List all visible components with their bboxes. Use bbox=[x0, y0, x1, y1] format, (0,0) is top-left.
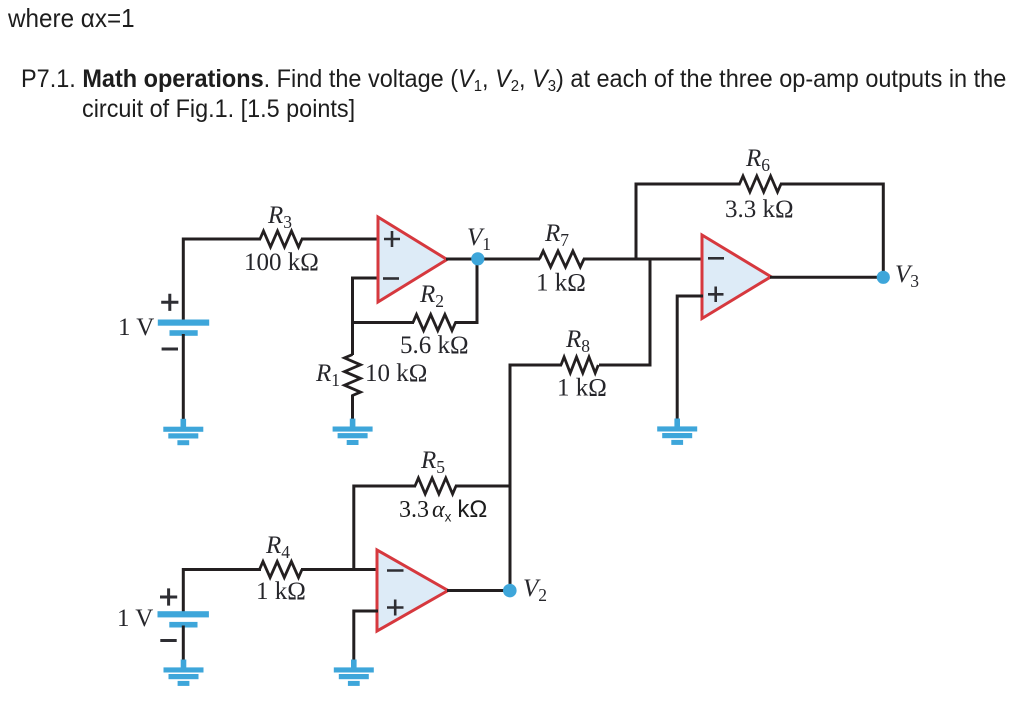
svg-text:1 V: 1 V bbox=[117, 605, 153, 632]
op-amp U1 minus input marker bbox=[383, 277, 399, 280]
ground G2 bbox=[181, 660, 187, 669]
svg-text:1 kΩ: 1 kΩ bbox=[256, 578, 306, 605]
wire: U2 non-inverting input down to ground G5 bbox=[354, 610, 378, 661]
battery B1 plus sign bbox=[161, 294, 178, 311]
svg-text:R7: R7 bbox=[544, 220, 569, 250]
battery B1 minus sign bbox=[162, 348, 178, 351]
ground G1 bbox=[181, 419, 187, 428]
problem text line 1 bbox=[21, 65, 1006, 94]
wire: op-amp U1 inverting input to node, with corner bbox=[353, 278, 380, 323]
wire: R3 to op-amp U1 + input bbox=[301, 238, 379, 241]
ground G5 bbox=[351, 660, 357, 669]
node V3 bbox=[877, 271, 890, 284]
svg-text:V1: V1 bbox=[467, 224, 491, 254]
op-amp U3 bbox=[702, 235, 771, 319]
svg-text:1 kΩ: 1 kΩ bbox=[536, 270, 586, 297]
resistor R2 bbox=[413, 315, 456, 331]
wire: battery B2 to ground G2 bbox=[182, 626, 185, 661]
resistor R4 bbox=[260, 562, 303, 578]
wire: battery B2 to R4 bbox=[182, 568, 261, 612]
wire: R8 to left rail down to node V2 bbox=[510, 364, 562, 591]
resistor R1 (vertical) bbox=[351, 321, 354, 355]
resistor R8 bbox=[599, 364, 652, 367]
op-amp U1 plus input marker bbox=[384, 231, 400, 247]
battery B2 minus sign bbox=[160, 639, 176, 642]
op-amp U2 plus input marker bbox=[387, 600, 404, 616]
op-amp U2 minus input marker bbox=[387, 569, 404, 572]
heading: where ax=1 bbox=[8, 3, 135, 34]
battery B1 (1 V source) bbox=[158, 320, 209, 326]
svg-text:100 kΩ: 100 kΩ bbox=[244, 249, 319, 276]
node V2 bbox=[503, 584, 517, 598]
wire: U1 output to node V1 and to R7 bbox=[446, 258, 540, 261]
wire: battery B1 to ground G1 bbox=[182, 334, 185, 420]
ground G4 bbox=[674, 419, 680, 428]
svg-text:V2: V2 bbox=[523, 575, 547, 605]
svg-text:R2: R2 bbox=[419, 281, 444, 311]
op-amp U2 bbox=[377, 550, 448, 631]
wire: feedback node to R2 bbox=[351, 321, 414, 324]
svg-text:1 kΩ: 1 kΩ bbox=[557, 375, 607, 402]
wire: U3 non-inverting input down to ground G4 bbox=[677, 295, 703, 420]
svg-text:R1: R1 bbox=[315, 360, 340, 390]
wire: R7 to op-amp U3 inverting input bbox=[583, 258, 703, 261]
wire: battery B1 to R3 (top-left corner) bbox=[182, 239, 261, 321]
svg-text:1 V: 1 V bbox=[118, 314, 154, 341]
svg-text:R6: R6 bbox=[745, 145, 770, 175]
problem text line 2 bbox=[82, 95, 355, 124]
battery B2 (1 V source) bbox=[158, 611, 209, 617]
wire: R4 to op-amp U2 inverting input bbox=[301, 568, 378, 571]
battery B2 plus sign bbox=[160, 588, 177, 605]
wire: R1 to ground G3 bbox=[351, 395, 354, 420]
op-amp U3 plus input marker bbox=[708, 287, 724, 303]
wire: junction up to R6 feedback rail bbox=[635, 184, 741, 261]
svg-text:V3: V3 bbox=[895, 261, 919, 291]
wire: R2 up to node V1 bbox=[455, 259, 478, 324]
svg-text:10 kΩ: 10 kΩ bbox=[365, 360, 427, 387]
wire: R5 left rail down to U2 inverting wire bbox=[354, 485, 511, 570]
svg-text:R8: R8 bbox=[565, 326, 590, 356]
wire: U3 output to node V3 bbox=[770, 276, 883, 279]
svg-text:3.3 kΩ: 3.3 kΩ bbox=[725, 196, 794, 223]
op-amp U1 bbox=[378, 217, 447, 302]
node V1 bbox=[471, 252, 484, 265]
resistor R5 bbox=[415, 478, 456, 494]
resistor R3 bbox=[260, 231, 302, 247]
svg-text:3.3αxkΩ: 3.3αxkΩ bbox=[399, 496, 487, 525]
wire: R6 to right rail down to node V3 bbox=[780, 183, 883, 278]
svg-text:R3: R3 bbox=[267, 202, 292, 232]
resistor R7 bbox=[540, 251, 585, 267]
svg-text:R4: R4 bbox=[265, 532, 290, 562]
op-amp U3 minus input marker bbox=[708, 257, 724, 260]
wire: U2 output to node V2 bbox=[447, 589, 510, 592]
wire: junction down to R8 bbox=[649, 258, 652, 366]
svg-text:5.6 kΩ: 5.6 kΩ bbox=[400, 332, 469, 359]
svg-text:R5: R5 bbox=[420, 447, 445, 477]
ground G3 bbox=[350, 419, 356, 428]
resistor R6 bbox=[740, 176, 782, 192]
